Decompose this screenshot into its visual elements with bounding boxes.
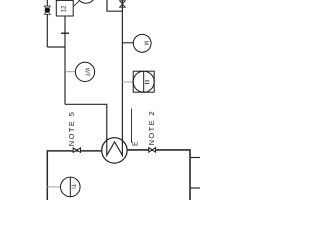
- svg-text:M: M: [142, 41, 148, 46]
- valve V1 ball valve: [44, 6, 50, 14]
- heat exchanger E1: [102, 138, 127, 163]
- valve V3: [73, 148, 80, 153]
- wire main vertical pipe: [121, 0, 123, 140]
- wire right stub 2: [190, 187, 200, 189]
- svg-text:E: E: [133, 141, 140, 146]
- wire top-right branch: [107, 0, 122, 11]
- valve V4: [149, 148, 156, 153]
- instrument bubble WT: [75, 62, 94, 81]
- wire right stub 1: [190, 157, 200, 159]
- exchanger tag E: [132, 109, 140, 147]
- wire to instrument M: [122, 42, 133, 44]
- wire right shell pipe: [127, 150, 190, 200]
- reducer tick: [61, 32, 69, 34]
- valve V2 on top main line: [120, 1, 126, 7]
- svg-text:NOTE 5: NOTE 5: [67, 111, 76, 147]
- svg-text:TI: TI: [70, 184, 76, 189]
- signal line to bottom instrument: [47, 186, 60, 188]
- instrument box U1: [56, 0, 73, 16]
- instrument bubble M: [133, 34, 151, 52]
- wire bottom-left pipe: [46, 150, 48, 200]
- wire left shell pipe: [47, 150, 101, 152]
- svg-text:WT: WT: [84, 68, 90, 77]
- svg-text:12: 12: [61, 5, 67, 12]
- cropped instrument bubble top edge: [76, 0, 95, 3]
- leader line to cropped bubble: [73, 1, 79, 6]
- wire left inlet pipe top: [46, 0, 48, 47]
- wire to exchanger left port: [65, 104, 107, 140]
- svg-text:NOTE 2: NOTE 2: [147, 110, 156, 146]
- signal line to shared instrument: [122, 81, 133, 83]
- wire box down pipe: [64, 16, 66, 104]
- instrument square-circle II: [133, 71, 154, 92]
- signal line to WT: [65, 71, 76, 73]
- instrument bubble TI: [61, 177, 81, 197]
- wire left-to-box jog: [47, 46, 65, 48]
